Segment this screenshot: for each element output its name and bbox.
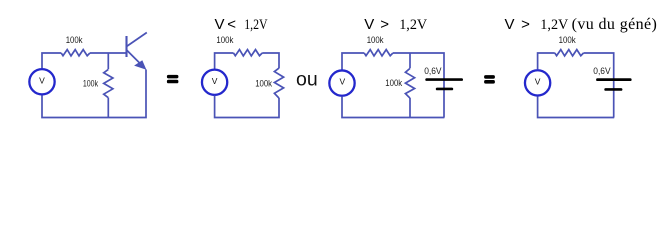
- voltage source V4: [525, 70, 550, 95]
- svg-text:V<1,2V: V<1,2V: [215, 16, 268, 33]
- svg-text:100k: 100k: [255, 78, 272, 88]
- svg-text:ou: ou: [296, 69, 318, 91]
- battery B1 0,6V plates: [425, 78, 463, 90]
- svg-text:V: V: [39, 75, 45, 85]
- wire: C4 bottom rail + left riser: [538, 96, 615, 117]
- wire: C1 below R2: [107, 98, 109, 118]
- node: C1 divider junction: [107, 53, 109, 69]
- resistor R3 100k (horizontal): [234, 50, 263, 56]
- svg-text:100k: 100k: [216, 35, 233, 45]
- svg-text:100k: 100k: [83, 78, 99, 88]
- wire: C4 top rail right + right branch (through battery): [584, 53, 614, 118]
- battery B2 0,6V plates: [596, 78, 632, 90]
- resistor R7 100k (horizontal): [555, 50, 584, 56]
- equals sign 2: [484, 75, 495, 84]
- svg-text:V>1,2V: V>1,2V: [364, 16, 427, 33]
- wire: C3 bottom rail + left riser: [342, 96, 444, 117]
- wire: C4 top rail left + left branch top: [538, 53, 555, 69]
- resistor R5 100k (horizontal): [364, 50, 393, 56]
- transistor Q1 emitter line with arrow: [127, 50, 147, 70]
- svg-text:V>1,2V(vu du géné): V>1,2V(vu du géné): [505, 16, 658, 33]
- equals sign 1: [167, 75, 179, 83]
- svg-text:V: V: [212, 76, 218, 86]
- resistor R6 100k (vertical): [405, 68, 414, 98]
- node: C3 divider junction: [409, 53, 411, 68]
- svg-text:100k: 100k: [367, 35, 384, 45]
- resistor R1 100k (horizontal): [61, 50, 90, 56]
- wire: C3 below R6: [409, 98, 411, 118]
- wire: C1 top rail left + left branch top: [42, 53, 61, 68]
- svg-text:0,6V: 0,6V: [593, 66, 610, 76]
- transistor Q1 collector line: [127, 33, 147, 47]
- svg-text:0,6V: 0,6V: [424, 66, 441, 76]
- voltage source V2: [202, 70, 227, 95]
- voltage source V1: [29, 69, 54, 94]
- svg-text:100k: 100k: [385, 78, 402, 88]
- svg-text:100k: 100k: [559, 35, 577, 45]
- wire: C1 bottom rail with left/right risers: [42, 70, 146, 118]
- voltage source V3: [329, 70, 354, 95]
- wire: C2 top rail left + left branch top: [215, 53, 234, 69]
- wire: C3 top rail right + right branch (through battery): [393, 53, 444, 118]
- resistor R4 100k (vertical): [274, 68, 283, 98]
- transistor Q1 base bar: [125, 36, 127, 57]
- resistor R2 100k (vertical): [104, 69, 113, 97]
- wire: C1 top rail right segment to transistor base: [90, 52, 126, 54]
- svg-text:V: V: [339, 77, 345, 87]
- wire: C2 bottom rail + left/right risers: [215, 96, 279, 118]
- wire: C3 top rail left + left branch top: [342, 53, 364, 70]
- wire: C2 top rail right + right branch top: [262, 53, 279, 68]
- svg-text:V: V: [535, 76, 541, 86]
- svg-text:100k: 100k: [66, 35, 83, 45]
